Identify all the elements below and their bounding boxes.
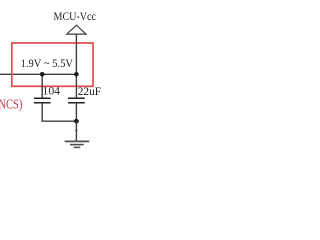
capacitor C1 value 104 — [43, 84, 61, 98]
wire: horizontal Vcc rail to left edge — [0, 73, 76, 75]
power symbol MCU-Vcc (open triangle) — [67, 25, 86, 34]
junction: C1 top on Vcc rail — [40, 72, 45, 77]
wire: rail down to C1 top plate — [41, 74, 43, 98]
junction: C2 top on Vcc rail — [74, 72, 79, 77]
capacitor C2 (22uF) plates — [68, 98, 85, 103]
capacitor C1 (104) plates — [34, 98, 51, 103]
wire: power symbol down to C2 top plate — [75, 35, 77, 98]
value label 1.9V ~ 5.5V — [21, 56, 74, 70]
net label MCU-Vcc — [54, 9, 97, 23]
svg-text:1.9V ~ 5.5V: 1.9V ~ 5.5V — [21, 56, 74, 70]
svg-text:MCU-Vcc: MCU-Vcc — [54, 9, 97, 23]
wire joint tick on ground wire — [75, 129, 78, 131]
wire: bottom horizontal C1 to C2 — [42, 120, 77, 122]
wire: C1 bottom plate down — [41, 103, 43, 121]
capacitor C2 value 22uF — [78, 84, 101, 98]
annotation: red voltage-range highlight box — [12, 43, 93, 86]
ground — [65, 141, 90, 147]
svg-text:NCS): NCS) — [0, 96, 22, 111]
pin label NCS) (partial, red) — [0, 96, 22, 111]
wire: ground node down to ground symbol — [75, 121, 77, 140]
junction: ground node — [74, 119, 79, 124]
wire: C2 bottom plate down to ground node — [75, 103, 77, 121]
